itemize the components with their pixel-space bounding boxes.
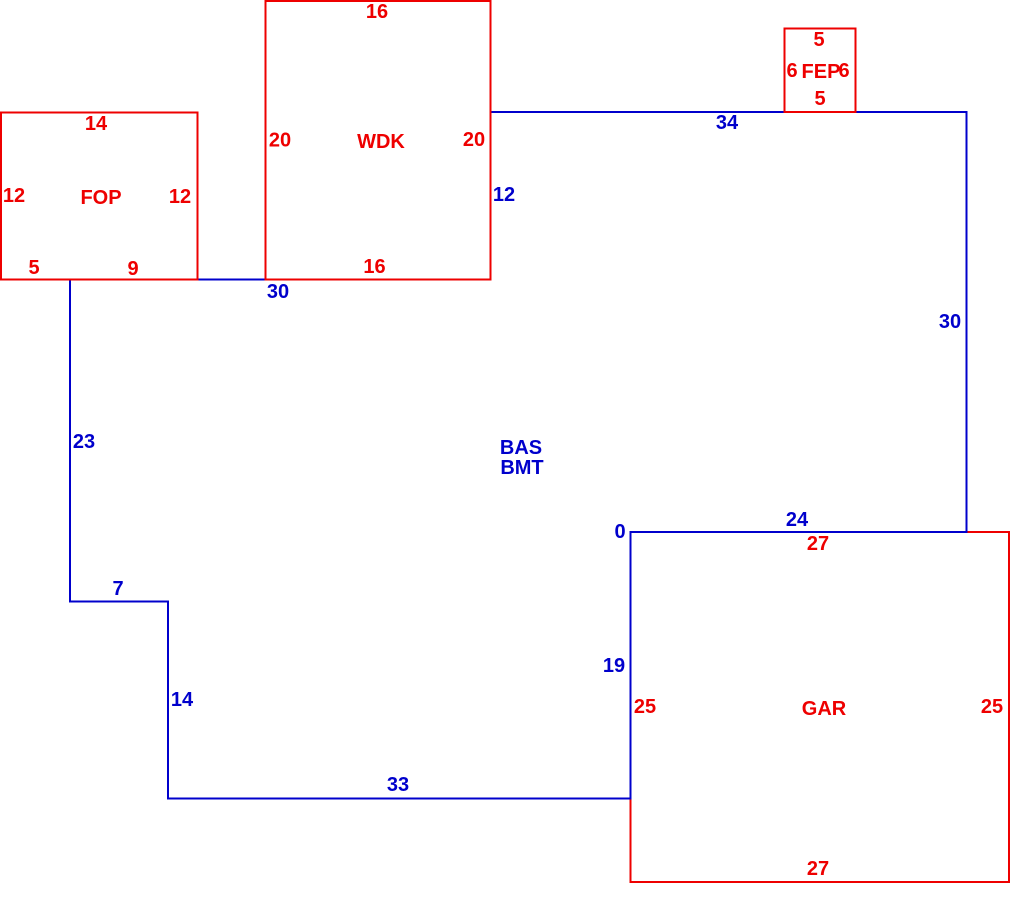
svg-text:34: 34 [716,112,739,134]
svg-text:30: 30 [267,281,289,303]
svg-text:GAR: GAR [802,698,847,720]
basement outline BAS/BMT polygon [70,112,966,798]
svg-text:25: 25 [981,696,1003,718]
svg-text:12: 12 [169,186,191,208]
svg-text:33: 33 [387,774,409,796]
svg-text:5: 5 [814,88,825,110]
svg-text:23: 23 [73,431,95,453]
svg-text:14: 14 [85,113,108,135]
svg-text:FOP: FOP [80,187,121,209]
svg-text:14: 14 [171,689,194,711]
svg-text:6: 6 [786,60,797,82]
svg-text:BAS: BAS [500,437,542,459]
svg-text:9: 9 [127,258,138,280]
svg-text:6: 6 [838,60,849,82]
svg-text:5: 5 [28,257,39,279]
svg-text:FEP: FEP [802,61,841,83]
svg-text:12: 12 [493,184,515,206]
svg-text:12: 12 [3,185,25,207]
svg-text:5: 5 [813,29,824,51]
svg-text:20: 20 [269,130,291,152]
svg-text:WDK: WDK [357,131,405,153]
svg-text:16: 16 [366,1,388,23]
svg-text:30: 30 [939,311,961,333]
svg-text:25: 25 [634,696,656,718]
room FOP outline (front open porch) [1,113,197,280]
room WDK outline (wood deck) [266,1,491,280]
svg-text:0: 0 [614,521,625,543]
svg-text:19: 19 [603,655,625,677]
svg-text:BMT: BMT [500,457,543,479]
svg-text:24: 24 [786,509,809,531]
svg-text:16: 16 [363,256,385,278]
svg-text:27: 27 [807,858,829,880]
svg-text:20: 20 [463,129,485,151]
svg-text:27: 27 [807,533,829,555]
svg-text:7: 7 [112,578,123,600]
room FEP outline (front enclosed porch) [785,29,856,113]
room GAR outline (garage, drawn first so basement outline overlaps its top/left edges) [631,532,1009,882]
